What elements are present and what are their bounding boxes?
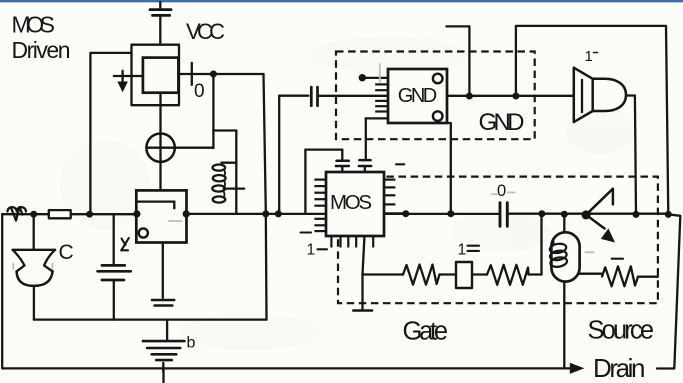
svg-text:Driven: Driven [12, 37, 71, 63]
svg-text:Source: Source [588, 317, 655, 345]
svg-text:Drain: Drain [593, 353, 646, 383]
svg-text:1: 1 [585, 48, 593, 65]
svg-text:MOS: MOS [330, 191, 372, 214]
svg-text:1: 1 [307, 242, 316, 259]
svg-text:GND: GND [398, 85, 438, 107]
svg-text:1: 1 [458, 242, 467, 259]
svg-text:C: C [59, 241, 74, 264]
svg-text:0: 0 [497, 182, 506, 200]
svg-text:0: 0 [194, 81, 205, 102]
svg-text:Gate: Gate [403, 318, 449, 346]
svg-text:b: b [187, 335, 196, 352]
svg-text:MOS: MOS [12, 12, 56, 38]
svg-text:VCC: VCC [186, 19, 225, 44]
svg-text:GND: GND [479, 109, 525, 136]
